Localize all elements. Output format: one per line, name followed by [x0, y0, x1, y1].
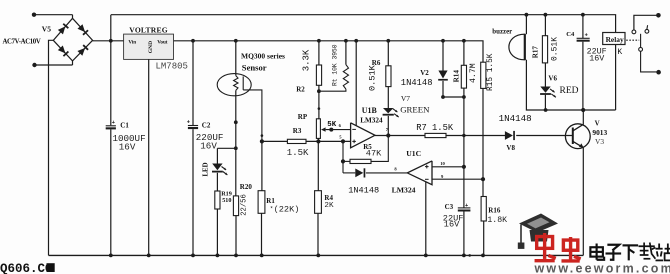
svg-text:16V: 16V [444, 219, 460, 229]
svg-text:LED: LED [203, 162, 210, 176]
svg-text:+: + [112, 120, 115, 126]
svg-text:(22K): (22K) [274, 205, 300, 215]
svg-text:GREEN: GREEN [400, 105, 430, 115]
svg-text:R17: R17 [532, 46, 540, 59]
svg-text:LM7805: LM7805 [156, 62, 188, 72]
svg-text:www.eeworm.com: www.eeworm.com [534, 261, 670, 274]
svg-text:Sensor: Sensor [242, 62, 267, 72]
svg-text:10: 10 [440, 161, 445, 166]
svg-text:2K: 2K [324, 202, 334, 210]
svg-text:V2: V2 [420, 69, 429, 77]
svg-text:V6: V6 [548, 74, 557, 82]
svg-text:510: 510 [222, 197, 231, 204]
svg-text:RED: RED [560, 86, 579, 96]
svg-text:47K: 47K [366, 149, 382, 159]
svg-text:Rt 10K 3950: Rt 10K 3950 [332, 44, 339, 86]
svg-text:buzzer: buzzer [492, 28, 512, 35]
svg-text:1N4148: 1N4148 [401, 78, 433, 88]
svg-text:U1B: U1B [362, 106, 378, 115]
svg-text:R16: R16 [488, 207, 501, 215]
svg-text:22/56: 22/56 [241, 194, 249, 216]
svg-text:MQ300 series: MQ300 series [241, 51, 285, 60]
svg-text:U1C: U1C [406, 149, 421, 158]
svg-text:R14: R14 [452, 70, 460, 83]
svg-text:C1: C1 [120, 122, 129, 130]
svg-text:GND: GND [148, 41, 154, 53]
svg-text:1.5K: 1.5K [287, 148, 309, 158]
svg-text:16V: 16V [589, 54, 604, 64]
svg-text:R15 1.5K: R15 1.5K [487, 53, 495, 91]
svg-text:LM324: LM324 [392, 186, 416, 195]
svg-text:V3: V3 [595, 137, 604, 146]
svg-text:0.51K: 0.51K [551, 37, 560, 61]
svg-text:LM324: LM324 [360, 117, 383, 125]
svg-text:16V: 16V [200, 141, 217, 152]
svg-text:R20: R20 [240, 183, 253, 191]
svg-text:1.8K: 1.8K [487, 216, 507, 225]
svg-text:+: + [465, 203, 468, 209]
svg-text:Vout: Vout [157, 39, 168, 45]
svg-text:V: V [595, 119, 600, 127]
svg-text:+: + [585, 33, 588, 39]
svg-text:V5: V5 [42, 25, 51, 34]
svg-text:V7: V7 [401, 94, 410, 103]
svg-text:VOLTREG: VOLTREG [129, 25, 168, 34]
svg-text:16V: 16V [119, 141, 136, 152]
svg-text:3.3K: 3.3K [302, 49, 312, 71]
svg-text:RP: RP [298, 113, 308, 121]
svg-text:C3: C3 [445, 203, 454, 211]
svg-text:0.51K: 0.51K [367, 64, 377, 91]
svg-text:R7 1.5K: R7 1.5K [416, 123, 454, 133]
svg-text:C2: C2 [202, 122, 211, 130]
svg-text:C4: C4 [566, 31, 575, 38]
svg-text:5K: 5K [327, 121, 336, 129]
svg-text:Vin: Vin [128, 39, 136, 45]
svg-text:1N4148: 1N4148 [499, 113, 532, 124]
svg-text:V8: V8 [506, 144, 515, 152]
svg-text:+: + [187, 119, 190, 125]
svg-text:R2: R2 [296, 86, 305, 94]
svg-text:9013: 9013 [592, 128, 607, 137]
svg-text:4.7M: 4.7M [469, 63, 478, 83]
svg-text:AC7V-AC10V: AC7V-AC10V [3, 39, 41, 46]
svg-text:K: K [617, 48, 622, 57]
svg-text:1N4148: 1N4148 [348, 186, 379, 196]
svg-text:Q606.CO: Q606.CO [0, 262, 53, 274]
svg-text:Relay: Relay [606, 35, 624, 44]
svg-text:R3: R3 [293, 127, 302, 135]
